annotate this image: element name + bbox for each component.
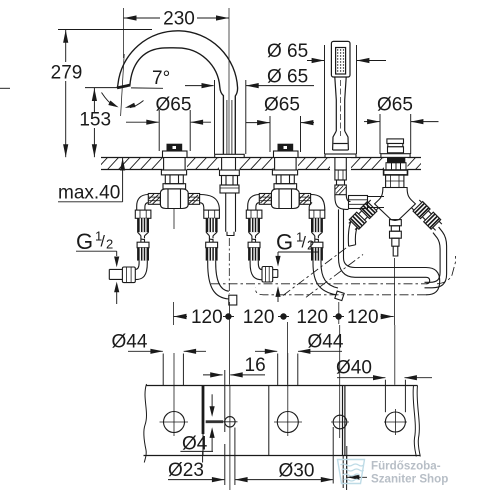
svg-text:230: 230 xyxy=(163,9,195,30)
svg-text:120: 120 xyxy=(296,307,328,328)
svg-text:/: / xyxy=(302,235,307,252)
svg-text:Ø23: Ø23 xyxy=(168,460,204,481)
svg-text:120: 120 xyxy=(347,307,379,328)
svg-text:120: 120 xyxy=(243,307,275,328)
svg-text:Fürdőszoba-: Fürdőszoba- xyxy=(371,460,441,473)
svg-text:G: G xyxy=(76,229,93,254)
svg-text:120: 120 xyxy=(191,307,223,328)
svg-text:/: / xyxy=(101,234,106,251)
svg-text:Ø65: Ø65 xyxy=(156,94,192,115)
svg-text:153: 153 xyxy=(79,110,111,131)
svg-text:Szaniter Shop: Szaniter Shop xyxy=(371,473,448,486)
svg-text:16: 16 xyxy=(245,355,266,376)
svg-text:7°: 7° xyxy=(152,68,170,89)
svg-text:max.40: max.40 xyxy=(58,183,120,204)
svg-text:Ø65: Ø65 xyxy=(264,94,300,115)
svg-text:Ø40: Ø40 xyxy=(336,358,372,379)
svg-text:279: 279 xyxy=(51,63,83,84)
svg-text:Ø30: Ø30 xyxy=(279,460,315,481)
svg-text:Ø65: Ø65 xyxy=(377,94,413,115)
svg-text:Ø4: Ø4 xyxy=(182,434,208,455)
svg-text:Ø 65: Ø 65 xyxy=(267,41,308,62)
svg-text:G: G xyxy=(276,230,293,255)
svg-text:2: 2 xyxy=(307,238,314,253)
svg-text:Ø 65: Ø 65 xyxy=(267,67,308,88)
svg-text:Ø44: Ø44 xyxy=(308,332,344,353)
svg-text:Ø44: Ø44 xyxy=(112,332,148,353)
svg-text:2: 2 xyxy=(106,237,113,252)
